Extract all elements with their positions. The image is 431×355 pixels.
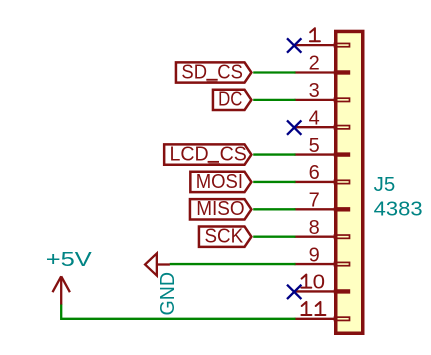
svg-text:4: 4 bbox=[309, 107, 320, 129]
svg-text:GND: GND bbox=[157, 272, 179, 316]
svg-text:5: 5 bbox=[309, 135, 320, 157]
svg-text:+5V: +5V bbox=[46, 249, 93, 271]
svg-text:MOSI: MOSI bbox=[196, 171, 243, 193]
svg-text:8: 8 bbox=[309, 217, 320, 239]
svg-text:3: 3 bbox=[309, 80, 320, 102]
svg-text:6: 6 bbox=[309, 162, 320, 184]
svg-text:4383: 4383 bbox=[374, 199, 423, 221]
svg-text:J5: J5 bbox=[374, 174, 396, 196]
svg-text:SCK: SCK bbox=[205, 225, 244, 247]
svg-text:DC: DC bbox=[218, 89, 242, 111]
svg-text:9: 9 bbox=[309, 244, 320, 266]
svg-text:MISO: MISO bbox=[196, 198, 245, 220]
svg-text:0: 0 bbox=[313, 272, 325, 294]
svg-text:7: 7 bbox=[309, 190, 320, 212]
svg-text:2: 2 bbox=[309, 53, 320, 75]
